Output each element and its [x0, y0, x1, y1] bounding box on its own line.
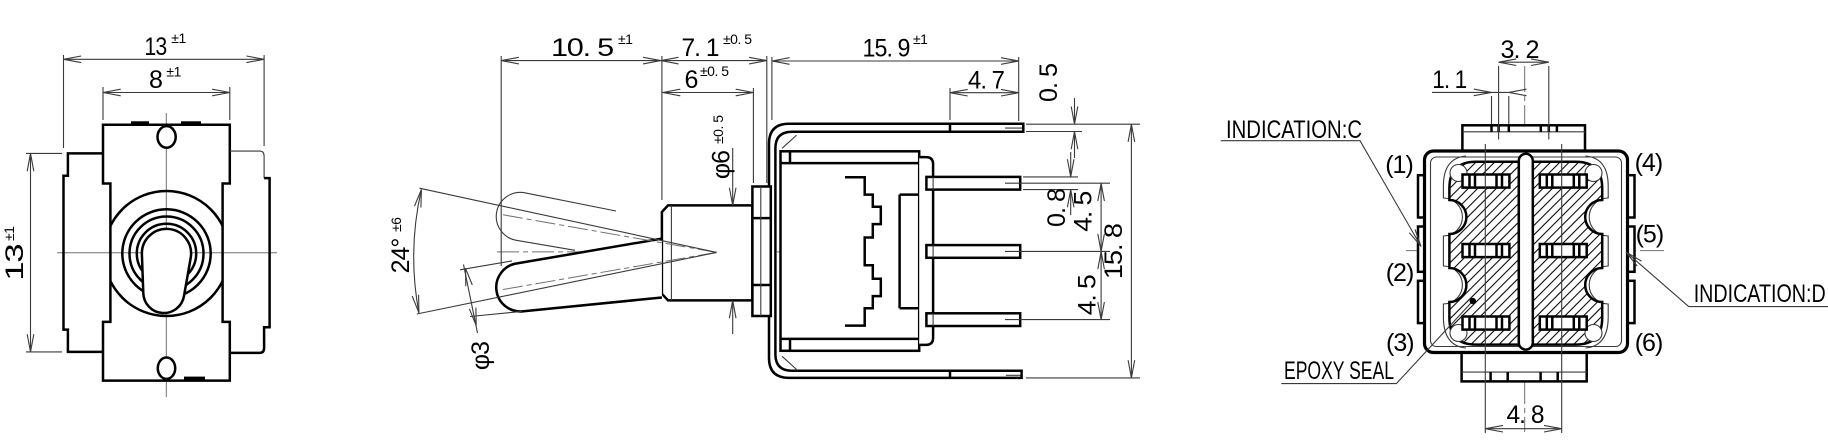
case cover seam bottom	[781, 338, 920, 341]
dimension 4.8	[1484, 144, 1486, 433]
inner wavy wall right	[1586, 156, 1609, 348]
terminal pad (1)	[1463, 175, 1510, 188]
bushing boss circles	[104, 191, 229, 316]
svg-text:INDICATION:D: INDICATION:D	[1694, 280, 1826, 308]
dimension 10.5 +/-1 (lever length)	[500, 56, 502, 266]
swing angle arc 24 deg	[414, 190, 422, 313]
svg-text:15. 9: 15. 9	[863, 35, 910, 63]
svg-text:10. 5: 10. 5	[551, 34, 613, 62]
front view vertical centerline	[165, 113, 167, 397]
right side tabs	[1620, 175, 1635, 217]
inner wall line	[1431, 157, 1622, 347]
threaded bushing	[662, 205, 753, 300]
swing angle line upper	[419, 188, 716, 252]
dimension 1.1	[1491, 96, 1493, 124]
mounting flange plate	[752, 187, 770, 317]
svg-text:±0. 5: ±0. 5	[723, 31, 752, 47]
terminal pad (6)	[1540, 317, 1587, 330]
terminal pin 2 (side)	[926, 245, 1020, 258]
bottom protrusion	[1462, 353, 1587, 382]
left side tabs	[1418, 175, 1433, 217]
epoxy seal hatched area right	[1533, 162, 1602, 345]
toggle lever (front view)	[142, 229, 191, 313]
dimension 13 +/-1 (front top width)	[63, 55, 65, 148]
svg-text:0. 5: 0. 5	[1035, 64, 1063, 102]
toggle lever lower position (side)	[496, 239, 662, 312]
svg-text:0. 8: 0. 8	[1043, 189, 1071, 227]
dimension 15.9 +/-1 (overall length)	[771, 57, 773, 120]
bottom protrusion inner line	[1462, 371, 1587, 373]
svg-text:8: 8	[149, 66, 162, 94]
epoxy seal hatched area left	[1449, 162, 1518, 345]
terminal pad (5)	[1540, 244, 1587, 257]
lever axis centerline upper	[503, 215, 717, 253]
svg-text:13: 13	[144, 33, 166, 61]
svg-text:(5): (5)	[1636, 221, 1664, 249]
phi3 lever diameter dimension	[460, 261, 512, 270]
key slot tick at 1491.5	[1490, 125, 1493, 132]
strap bend tick bottom	[949, 371, 952, 378]
toggle lever upper position (phantom outline)	[496, 192, 616, 250]
front view horizontal centerline	[57, 252, 277, 254]
top protrusion (bushing mount)	[1462, 125, 1585, 150]
svg-text:24°: 24°	[387, 239, 415, 274]
key slot tick at 1548.8	[1548, 125, 1551, 132]
svg-text:±0. 5: ±0. 5	[710, 115, 726, 144]
terminal pad (2)	[1463, 244, 1510, 257]
lever axis centerline lower	[503, 252, 717, 289]
svg-text:(4): (4)	[1635, 149, 1663, 177]
svg-text:(2): (2)	[1386, 259, 1414, 287]
svg-text:4. 7: 4. 7	[968, 66, 1004, 94]
cover tab top left	[789, 151, 792, 163]
svg-text:4. 8: 4. 8	[1507, 401, 1544, 429]
top edge tab marks	[131, 121, 149, 125]
strap bend tick top	[949, 124, 952, 132]
terminal support strip	[919, 157, 933, 345]
svg-text:±1: ±1	[913, 31, 928, 47]
bottom slot tick at 1490.6	[1489, 372, 1492, 381]
switch case (side)	[781, 151, 920, 350]
bottom edge tab marks	[184, 377, 205, 380]
dimension 7.1 +/-0.5 (bushing length)	[766, 56, 768, 183]
top screw hole	[158, 126, 176, 148]
svg-text:6: 6	[685, 66, 698, 94]
svg-text:±1: ±1	[1, 226, 17, 241]
terminal pin 3 (side)	[926, 313, 1020, 326]
dimension 4.7 (pin length)	[949, 88, 951, 120]
svg-text:±6: ±6	[388, 217, 404, 232]
svg-text:4. 5: 4. 5	[1073, 275, 1101, 315]
key slot tick at 1508.8	[1508, 125, 1511, 132]
bottom screw hole	[158, 358, 175, 379]
svg-text:EPOXY SEAL: EPOXY SEAL	[1284, 357, 1394, 385]
svg-text:INDICATION:C: INDICATION:C	[1226, 116, 1362, 144]
svg-text:φ6: φ6	[708, 151, 736, 179]
bushing chamfer line	[670, 205, 672, 300]
svg-text:±0. 5: ±0. 5	[700, 63, 729, 79]
svg-text:±1: ±1	[618, 31, 633, 47]
svg-text:7. 1: 7. 1	[682, 34, 719, 62]
main body outline (bottom view)	[1425, 151, 1628, 353]
switch body front outline	[103, 125, 230, 381]
svg-text:±1: ±1	[166, 64, 181, 80]
internal terminal moulding profile	[845, 177, 881, 325]
svg-text:3. 2: 3. 2	[1501, 36, 1539, 64]
top protrusion inner line	[1462, 131, 1585, 133]
case cover seam top	[781, 162, 920, 165]
center rib	[1519, 154, 1533, 350]
bottom slot tick at 1557.7	[1556, 372, 1559, 381]
svg-text:15. 8: 15. 8	[1100, 224, 1128, 279]
dimension 6 +/-0.5	[752, 88, 754, 183]
dimension 4.5 upper (pin pitch)	[1100, 183, 1102, 251]
dimension 3.2	[1498, 66, 1500, 140]
svg-text:13: 13	[1, 245, 29, 281]
phi6 bushing diameter dimension	[732, 148, 734, 205]
dimension 8 +/-1 (front body width)	[102, 87, 104, 120]
bracket corner chamfer top	[782, 135, 797, 148]
svg-text:(1): (1)	[1385, 151, 1413, 179]
right mounting ear	[230, 151, 264, 178]
left mounting ear	[64, 153, 104, 352]
svg-text:φ3: φ3	[467, 342, 495, 370]
svg-text:(3): (3)	[1386, 329, 1414, 357]
dimension 4.5 lower (pin pitch)	[1100, 252, 1102, 320]
inner wavy wall left	[1443, 156, 1466, 348]
strap tip crimp line top	[1005, 127, 1022, 129]
svg-text:±1: ±1	[171, 30, 186, 46]
bottom slot tick at 1507.7	[1506, 372, 1509, 381]
terminal pin 1 (side)	[926, 177, 1020, 190]
strap tip crimp line bottom	[1006, 374, 1021, 376]
svg-text:4. 5: 4. 5	[1070, 192, 1098, 232]
bottom view vertical centerline	[1524, 66, 1526, 432]
dimension 0.5 (strap thickness)	[1026, 123, 1140, 125]
metal mounting bracket / support straps	[769, 124, 1023, 378]
bottom slot tick at 1540.6	[1539, 372, 1542, 381]
dimension 13 +/-1 (front height, left)	[26, 152, 62, 154]
dimension 0.8 (pin thickness)	[1023, 176, 1078, 178]
svg-text:(6): (6)	[1635, 329, 1663, 357]
key slot tick at 1540.8	[1540, 125, 1543, 132]
bracket corner chamfer bottom	[782, 356, 797, 369]
corner post circles	[1450, 165, 1467, 182]
terminal pad (4)	[1540, 175, 1587, 188]
side view horizontal centerline	[497, 251, 948, 253]
cover tab bottom left	[789, 339, 792, 351]
bottom view horizontal centerline	[1406, 250, 1664, 252]
dimension 15.8 (overall height)	[1026, 377, 1140, 379]
terminal pad (3)	[1463, 317, 1510, 330]
swing angle line lower	[417, 252, 717, 314]
key slot tick at 1498.6	[1497, 125, 1500, 132]
key slot tick at 1556.9	[1556, 125, 1559, 132]
svg-text:1. 1: 1. 1	[1432, 66, 1466, 94]
